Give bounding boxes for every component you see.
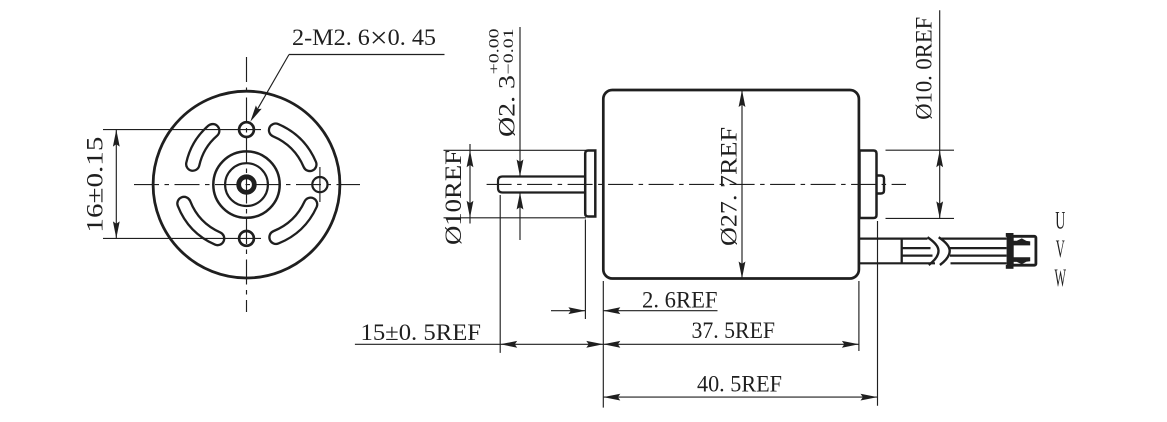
front view: side pilot hole (312, 177, 327, 192)
lead wire: inner line 2 left (902, 255, 933, 257)
svg-text:W: W (1055, 265, 1067, 292)
dimension Ø10.0REF: dimension line (939, 10, 941, 218)
dimension 16±0.15: bottom extension line (103, 237, 261, 239)
dimension Ø27.7REF: dimension line (741, 90, 743, 279)
dimension 16±0.15: top extension line (103, 129, 261, 131)
svg-text:V: V (1056, 236, 1065, 263)
front view: shaft hub ring (239, 177, 255, 193)
extension line: body front face (602, 281, 604, 408)
front view: lower-right vent slot (276, 204, 311, 237)
extension line: shaft tip (499, 195, 501, 353)
lead wire bundle: top edge right (941, 238, 1007, 240)
dimension 40.5REF: dimension line (603, 396, 877, 398)
side view: horizontal centerline (487, 183, 906, 185)
connector: housing (1012, 236, 1036, 265)
svg-text:16±0.15: 16±0.15 (83, 137, 108, 233)
side view: motor body (603, 90, 859, 279)
dimension Ø10.0REF: bottom extension line (886, 217, 955, 219)
front view: upper-right vent slot (276, 130, 310, 164)
connector: lower contact (1011, 257, 1031, 264)
cable break symbol: left chevron (928, 237, 939, 265)
leader line for 2-M2.6×0.45 (289, 54, 445, 56)
front view: horizontal centerline (134, 184, 360, 186)
lead wire bundle: bottom edge right (951, 262, 1007, 264)
front view: bottom mounting hole M2.6 (239, 231, 254, 246)
svg-text:Ø2. 3: Ø2. 3 (495, 75, 520, 137)
svg-text:Ø10REF: Ø10REF (441, 150, 466, 245)
extension line: boss front face (584, 220, 586, 320)
lead wire: inner line 2 right (950, 255, 1007, 257)
lead wire: inner line 1 right (949, 247, 1007, 249)
dimension 15±0.5REF: dimension line (355, 343, 603, 345)
dimension 37.5REF: dimension line (603, 343, 859, 345)
dimension Ø10REF: top extension line (444, 149, 587, 151)
side view: output shaft (498, 177, 585, 193)
front view: top mounting hole M2.6 (239, 122, 254, 137)
svg-text:Ø10. 0REF: Ø10. 0REF (912, 17, 937, 120)
svg-text:15±0. 5REF: 15±0. 5REF (361, 320, 482, 345)
dimension Ø10REF: bottom extension line (444, 217, 587, 219)
front view: bearing boss circle (213, 151, 279, 217)
extension line: body rear face (858, 281, 860, 351)
svg-text:U: U (1055, 208, 1065, 235)
dimension Ø2.3: lower dimension line (519, 193, 521, 241)
svg-text:Ø27. 7REF: Ø27. 7REF (717, 127, 742, 246)
svg-text:2-M2. 6×0. 45: 2-M2. 6×0. 45 (292, 22, 436, 55)
connector: upper contact (1011, 238, 1031, 245)
dimension Ø2.3: upper dimension line (519, 27, 521, 177)
side view: rear shaft end (877, 176, 885, 194)
connector: mounting flange bar (1007, 233, 1012, 268)
dimension Ø10REF: dimension line (469, 144, 471, 224)
svg-text:−0.01: −0.01 (501, 28, 517, 74)
svg-text:37. 5REF: 37. 5REF (692, 318, 776, 343)
side view: front mounting boss (585, 151, 595, 217)
extension line: bushing rear face (877, 221, 879, 406)
lead wire bundle: bottom edge left (860, 262, 936, 264)
dimension 2.6REF: outside arrow segment (551, 310, 585, 312)
lead wire bundle: sleeve end divider (901, 239, 903, 264)
dimension Ø10.0REF: top extension line (886, 149, 955, 151)
svg-text:40. 5REF: 40. 5REF (697, 372, 782, 397)
lead wire bundle: top edge left (860, 238, 928, 240)
front view: inner boss circle (225, 163, 268, 206)
front view: vertical centerline (246, 57, 248, 312)
side view: rear bearing bushing (860, 151, 877, 219)
svg-text:2. 6REF: 2. 6REF (642, 288, 718, 313)
front view: upper-left vent slot (193, 131, 213, 164)
front view: lower-left vent slot (184, 204, 218, 239)
lead wire: inner line 1 left (902, 247, 931, 249)
front view: side hole vertical centerline (319, 167, 321, 202)
dimension 2.6REF: dimension line (603, 310, 717, 312)
dimension 16±0.15: dimension line (115, 130, 117, 239)
front view: motor outer circle (153, 91, 340, 278)
cable break symbol: right chevron (939, 237, 950, 265)
